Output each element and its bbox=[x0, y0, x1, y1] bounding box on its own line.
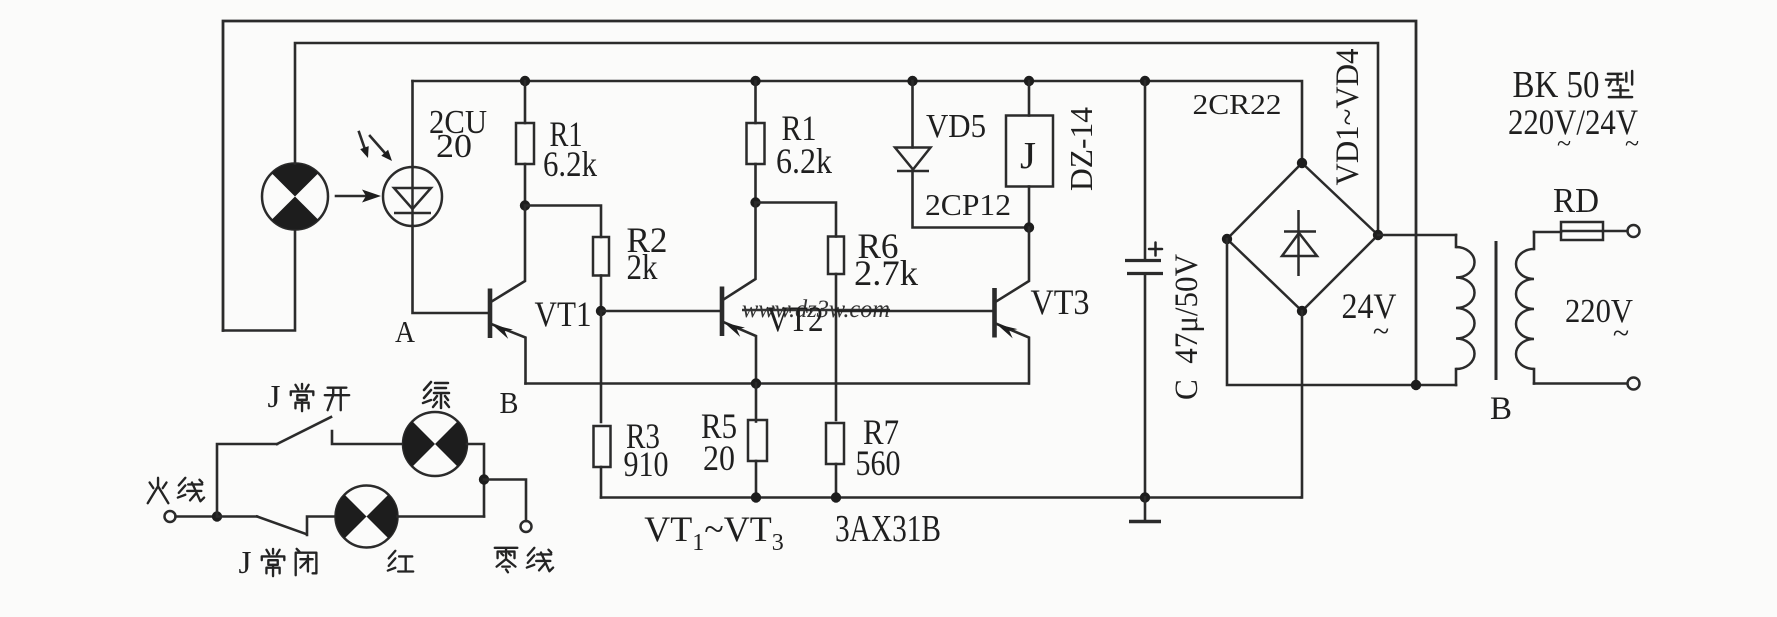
wire R2 junction to VT2 base bbox=[601, 310, 722, 313]
svg-text:~: ~ bbox=[1557, 129, 1571, 158]
node R7 rail junction bbox=[831, 492, 841, 502]
transformer core bbox=[1495, 241, 1498, 380]
transistor VT3 bbox=[995, 228, 1030, 384]
label 火线 (live wire) bbox=[148, 478, 169, 503]
resistor R1 (first) bbox=[516, 81, 534, 206]
wire green lamp to neutral junction bbox=[467, 444, 484, 517]
wire top rail bbox=[413, 81, 1303, 163]
svg-text:C 47μ/50V: C 47μ/50V bbox=[1169, 254, 1205, 400]
wire bottom ground rail bbox=[601, 496, 1301, 499]
svg-text:J: J bbox=[1020, 135, 1036, 177]
wire R2 junction down to R3 bbox=[600, 311, 603, 422]
wire live terminal to junction bbox=[176, 515, 218, 518]
node frame/AC rail junction bbox=[1411, 380, 1421, 390]
node ground junction bbox=[1140, 492, 1150, 502]
node VD5/J/VT3 junction bbox=[1024, 222, 1034, 232]
svg-text:560: 560 bbox=[856, 443, 901, 483]
wire fuse to terminal bbox=[1603, 230, 1627, 233]
wire R6 to VT3 base bbox=[836, 310, 995, 313]
relay J (DZ-14) bbox=[1006, 81, 1053, 228]
bridge rectifier VD1~VD4 (2CR22) bbox=[1222, 158, 1383, 316]
svg-text:J: J bbox=[239, 544, 252, 580]
svg-text:20: 20 bbox=[436, 128, 472, 165]
svg-text:3AX31B: 3AX31B bbox=[835, 508, 941, 550]
svg-text:~: ~ bbox=[1373, 315, 1389, 348]
resistor R3 bbox=[594, 426, 611, 498]
transistor VT1 bbox=[490, 206, 526, 384]
wire emitter rail (node B) bbox=[526, 382, 1029, 385]
wire R1b junction to R6 bbox=[756, 203, 837, 237]
svg-text:220V/24V: 220V/24V bbox=[1508, 102, 1638, 142]
svg-text:B: B bbox=[1490, 391, 1512, 427]
transformer B primary winding (24V side) bbox=[1456, 235, 1475, 385]
resistor R6 bbox=[828, 237, 844, 312]
terminal bottom right bbox=[1628, 378, 1640, 390]
resistor R5 bbox=[748, 384, 767, 498]
label 红 (red) bbox=[388, 551, 413, 572]
wire photodiode to VT1 base (node A) bbox=[413, 226, 491, 313]
svg-text:VT1~VT3: VT1~VT3 bbox=[644, 509, 783, 556]
label 零线 (neutral wire) bbox=[495, 548, 518, 572]
node R1/VT1 junction bbox=[520, 200, 530, 210]
svg-text:RD: RD bbox=[1553, 181, 1599, 220]
svg-text:2k: 2k bbox=[627, 247, 658, 287]
fuse RD bbox=[1561, 222, 1603, 240]
lamp EL (signal lamp, black top/bottom sectors) bbox=[262, 164, 328, 230]
svg-text:DZ-14: DZ-14 bbox=[1063, 107, 1099, 191]
switch J normally-open bbox=[217, 417, 403, 517]
node R5 rail junction bbox=[751, 492, 761, 502]
wire lamp top to inner frame bbox=[295, 43, 1378, 235]
terminal top right bbox=[1628, 225, 1640, 237]
svg-text:BK 50: BK 50 bbox=[1513, 64, 1600, 106]
capacitor C 47u/50V bbox=[1125, 81, 1163, 498]
coupling arrow lamp to photodiode bbox=[336, 190, 381, 203]
svg-text:2CR22: 2CR22 bbox=[1193, 89, 1282, 121]
svg-text:B: B bbox=[500, 385, 519, 420]
wire neutral junction to neutral terminal bbox=[484, 480, 526, 522]
resistor R1 (second) bbox=[747, 81, 765, 203]
wire R1 junction to R2 bbox=[525, 206, 601, 238]
wire red lamp to neutral junction bbox=[398, 515, 485, 518]
svg-text:www.dz3w.com: www.dz3w.com bbox=[742, 296, 890, 323]
resistor R2 bbox=[593, 237, 609, 311]
svg-text:A: A bbox=[395, 314, 416, 349]
svg-text:VT3: VT3 bbox=[1031, 282, 1090, 322]
node VT2 emitter junction bbox=[751, 378, 761, 388]
svg-text:2.7k: 2.7k bbox=[854, 253, 918, 293]
resistor R7 bbox=[826, 423, 844, 498]
svg-text:2CP12: 2CP12 bbox=[925, 187, 1011, 222]
svg-text:20: 20 bbox=[703, 438, 735, 478]
wire frame to lamp bottom bbox=[223, 230, 295, 331]
node neutral junction bbox=[479, 474, 489, 484]
switch J normally-closed bbox=[217, 517, 335, 536]
wire R6 down to R7 bbox=[835, 311, 838, 420]
node R2 bottom junction bbox=[596, 306, 606, 316]
svg-text:6.2k: 6.2k bbox=[776, 141, 832, 181]
node live junction bbox=[212, 511, 222, 521]
svg-text:VT1: VT1 bbox=[535, 294, 592, 334]
svg-text:J: J bbox=[268, 378, 281, 414]
label 绿 (green) bbox=[423, 382, 449, 408]
diode VD5 (2CP12) bbox=[895, 81, 1029, 228]
ground bbox=[1129, 498, 1161, 522]
transistor VT2 bbox=[722, 203, 756, 384]
light arrows into photodiode bbox=[359, 132, 392, 161]
node R1b/VT2 junction bbox=[750, 197, 760, 207]
svg-text:~: ~ bbox=[1613, 317, 1629, 350]
wire photodiode to top rail bbox=[411, 81, 414, 167]
junction dots top rail bbox=[520, 76, 530, 86]
transformer secondary winding (220V side) bbox=[1516, 232, 1534, 384]
terminal neutral bbox=[521, 521, 532, 532]
lamp red (black left/right sectors) bbox=[336, 486, 398, 548]
svg-text:~: ~ bbox=[1625, 129, 1639, 158]
wire bridge right vertex to winding top bbox=[1378, 234, 1456, 237]
terminal live wire bbox=[165, 511, 176, 522]
wire bridge bottom vertex down to ground rail bbox=[1301, 311, 1302, 498]
wire bridge left vertex down and AC rail to winding bottom bbox=[1227, 239, 1456, 385]
svg-text:6.2k: 6.2k bbox=[543, 144, 597, 184]
wire outer frame loop bbox=[223, 21, 1416, 385]
lamp green (black left/right sectors) bbox=[403, 412, 467, 476]
photodiode VD (2CU 20) bbox=[383, 167, 442, 226]
svg-text:VD1~VD4: VD1~VD4 bbox=[1330, 49, 1366, 186]
svg-text:VD5: VD5 bbox=[926, 108, 986, 145]
wire secondary bottom to terminal bbox=[1534, 382, 1627, 385]
svg-text:910: 910 bbox=[624, 444, 669, 484]
wire secondary top to fuse bbox=[1534, 231, 1561, 234]
